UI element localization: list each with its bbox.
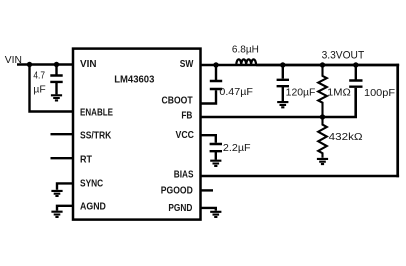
ground AGND bbox=[51, 212, 62, 217]
ground R2 bbox=[317, 159, 328, 164]
wire FB bbox=[201, 88, 356, 117]
ground C1 bbox=[51, 95, 62, 100]
node VIN-C1 junction bbox=[54, 62, 59, 67]
svg-text:0.47µF: 0.47µF bbox=[219, 87, 253, 98]
capacitor C2 0.47µF bbox=[210, 65, 222, 89]
svg-text:432kΩ: 432kΩ bbox=[329, 132, 363, 143]
svg-text:µF: µF bbox=[33, 84, 45, 95]
capacitor C1 4.7µF bbox=[50, 65, 62, 95]
svg-text:120µF: 120µF bbox=[286, 87, 316, 98]
wire VCC bbox=[201, 135, 216, 143]
svg-text:6.8µH: 6.8µH bbox=[232, 44, 259, 55]
node VOUT-C5 junction bbox=[353, 62, 358, 67]
capacitor C5 100pF bbox=[349, 65, 362, 87]
svg-text:100pF: 100pF bbox=[364, 88, 395, 99]
svg-text:4.7: 4.7 bbox=[33, 70, 45, 81]
svg-text:PGOOD: PGOOD bbox=[161, 186, 193, 197]
svg-text:FB: FB bbox=[181, 111, 192, 122]
wire ENABLE branch bbox=[30, 65, 74, 112]
resistor R1 1MΩ bbox=[318, 65, 327, 117]
svg-text:SS/TRK: SS/TRK bbox=[80, 130, 111, 141]
node SW-C2 junction bbox=[213, 62, 218, 67]
ground PGND bbox=[210, 212, 221, 217]
wire PGND bbox=[201, 208, 216, 211]
wire SW bbox=[201, 64, 400, 66]
svg-text:BIAS: BIAS bbox=[174, 169, 194, 180]
op-amp U1 LM43603 (IC body) bbox=[73, 49, 201, 220]
node VOUT-R1 junction bbox=[320, 62, 325, 67]
svg-text:VIN: VIN bbox=[5, 54, 22, 66]
svg-text:1MΩ: 1MΩ bbox=[327, 87, 351, 98]
wire BIAS bbox=[201, 175, 400, 178]
wire VIN input bbox=[17, 63, 73, 65]
svg-text:SW: SW bbox=[180, 59, 194, 70]
wire SYNC bbox=[57, 183, 73, 189]
wire AGND bbox=[57, 206, 73, 211]
svg-text:VIN: VIN bbox=[80, 59, 97, 70]
svg-text:3.3VOUT: 3.3VOUT bbox=[322, 50, 365, 62]
wire RT stub bbox=[51, 157, 74, 159]
node FB junction bbox=[320, 114, 325, 119]
node VOUT-C3 junction bbox=[280, 62, 285, 67]
svg-text:ENABLE: ENABLE bbox=[80, 108, 113, 119]
ground SYNC bbox=[51, 191, 62, 196]
capacitor C3 120µF bbox=[277, 65, 289, 101]
svg-text:RT: RT bbox=[80, 154, 92, 165]
wire VOUT rail bbox=[256, 64, 399, 66]
wire VOUT right edge drop bbox=[396, 64, 399, 177]
capacitor C4 2.2µF bbox=[210, 144, 222, 160]
ground C3 bbox=[277, 102, 288, 107]
resistor R2 432kΩ bbox=[318, 117, 327, 158]
svg-text:PGND: PGND bbox=[168, 203, 192, 214]
svg-text:SYNC: SYNC bbox=[80, 178, 103, 189]
svg-text:2.2µF: 2.2µF bbox=[223, 143, 251, 154]
svg-text:VCC: VCC bbox=[176, 130, 195, 141]
inductor L1 6.8µH bbox=[236, 59, 256, 65]
wire CBOOT bbox=[201, 90, 217, 103]
wire PGOOD stub bbox=[201, 189, 214, 191]
node VIN-ENABLE junction bbox=[27, 62, 32, 67]
wire SS/TRK stub bbox=[51, 133, 74, 135]
svg-text:AGND: AGND bbox=[80, 201, 106, 212]
ground C4 bbox=[210, 161, 221, 166]
svg-text:LM43603: LM43603 bbox=[114, 75, 154, 86]
svg-text:CBOOT: CBOOT bbox=[162, 95, 193, 106]
